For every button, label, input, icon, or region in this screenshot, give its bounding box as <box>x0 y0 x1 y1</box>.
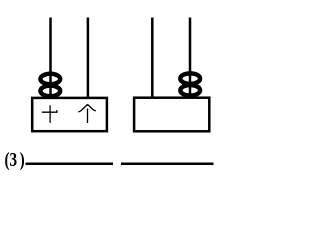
svg-text:(3): (3) <box>5 148 25 170</box>
